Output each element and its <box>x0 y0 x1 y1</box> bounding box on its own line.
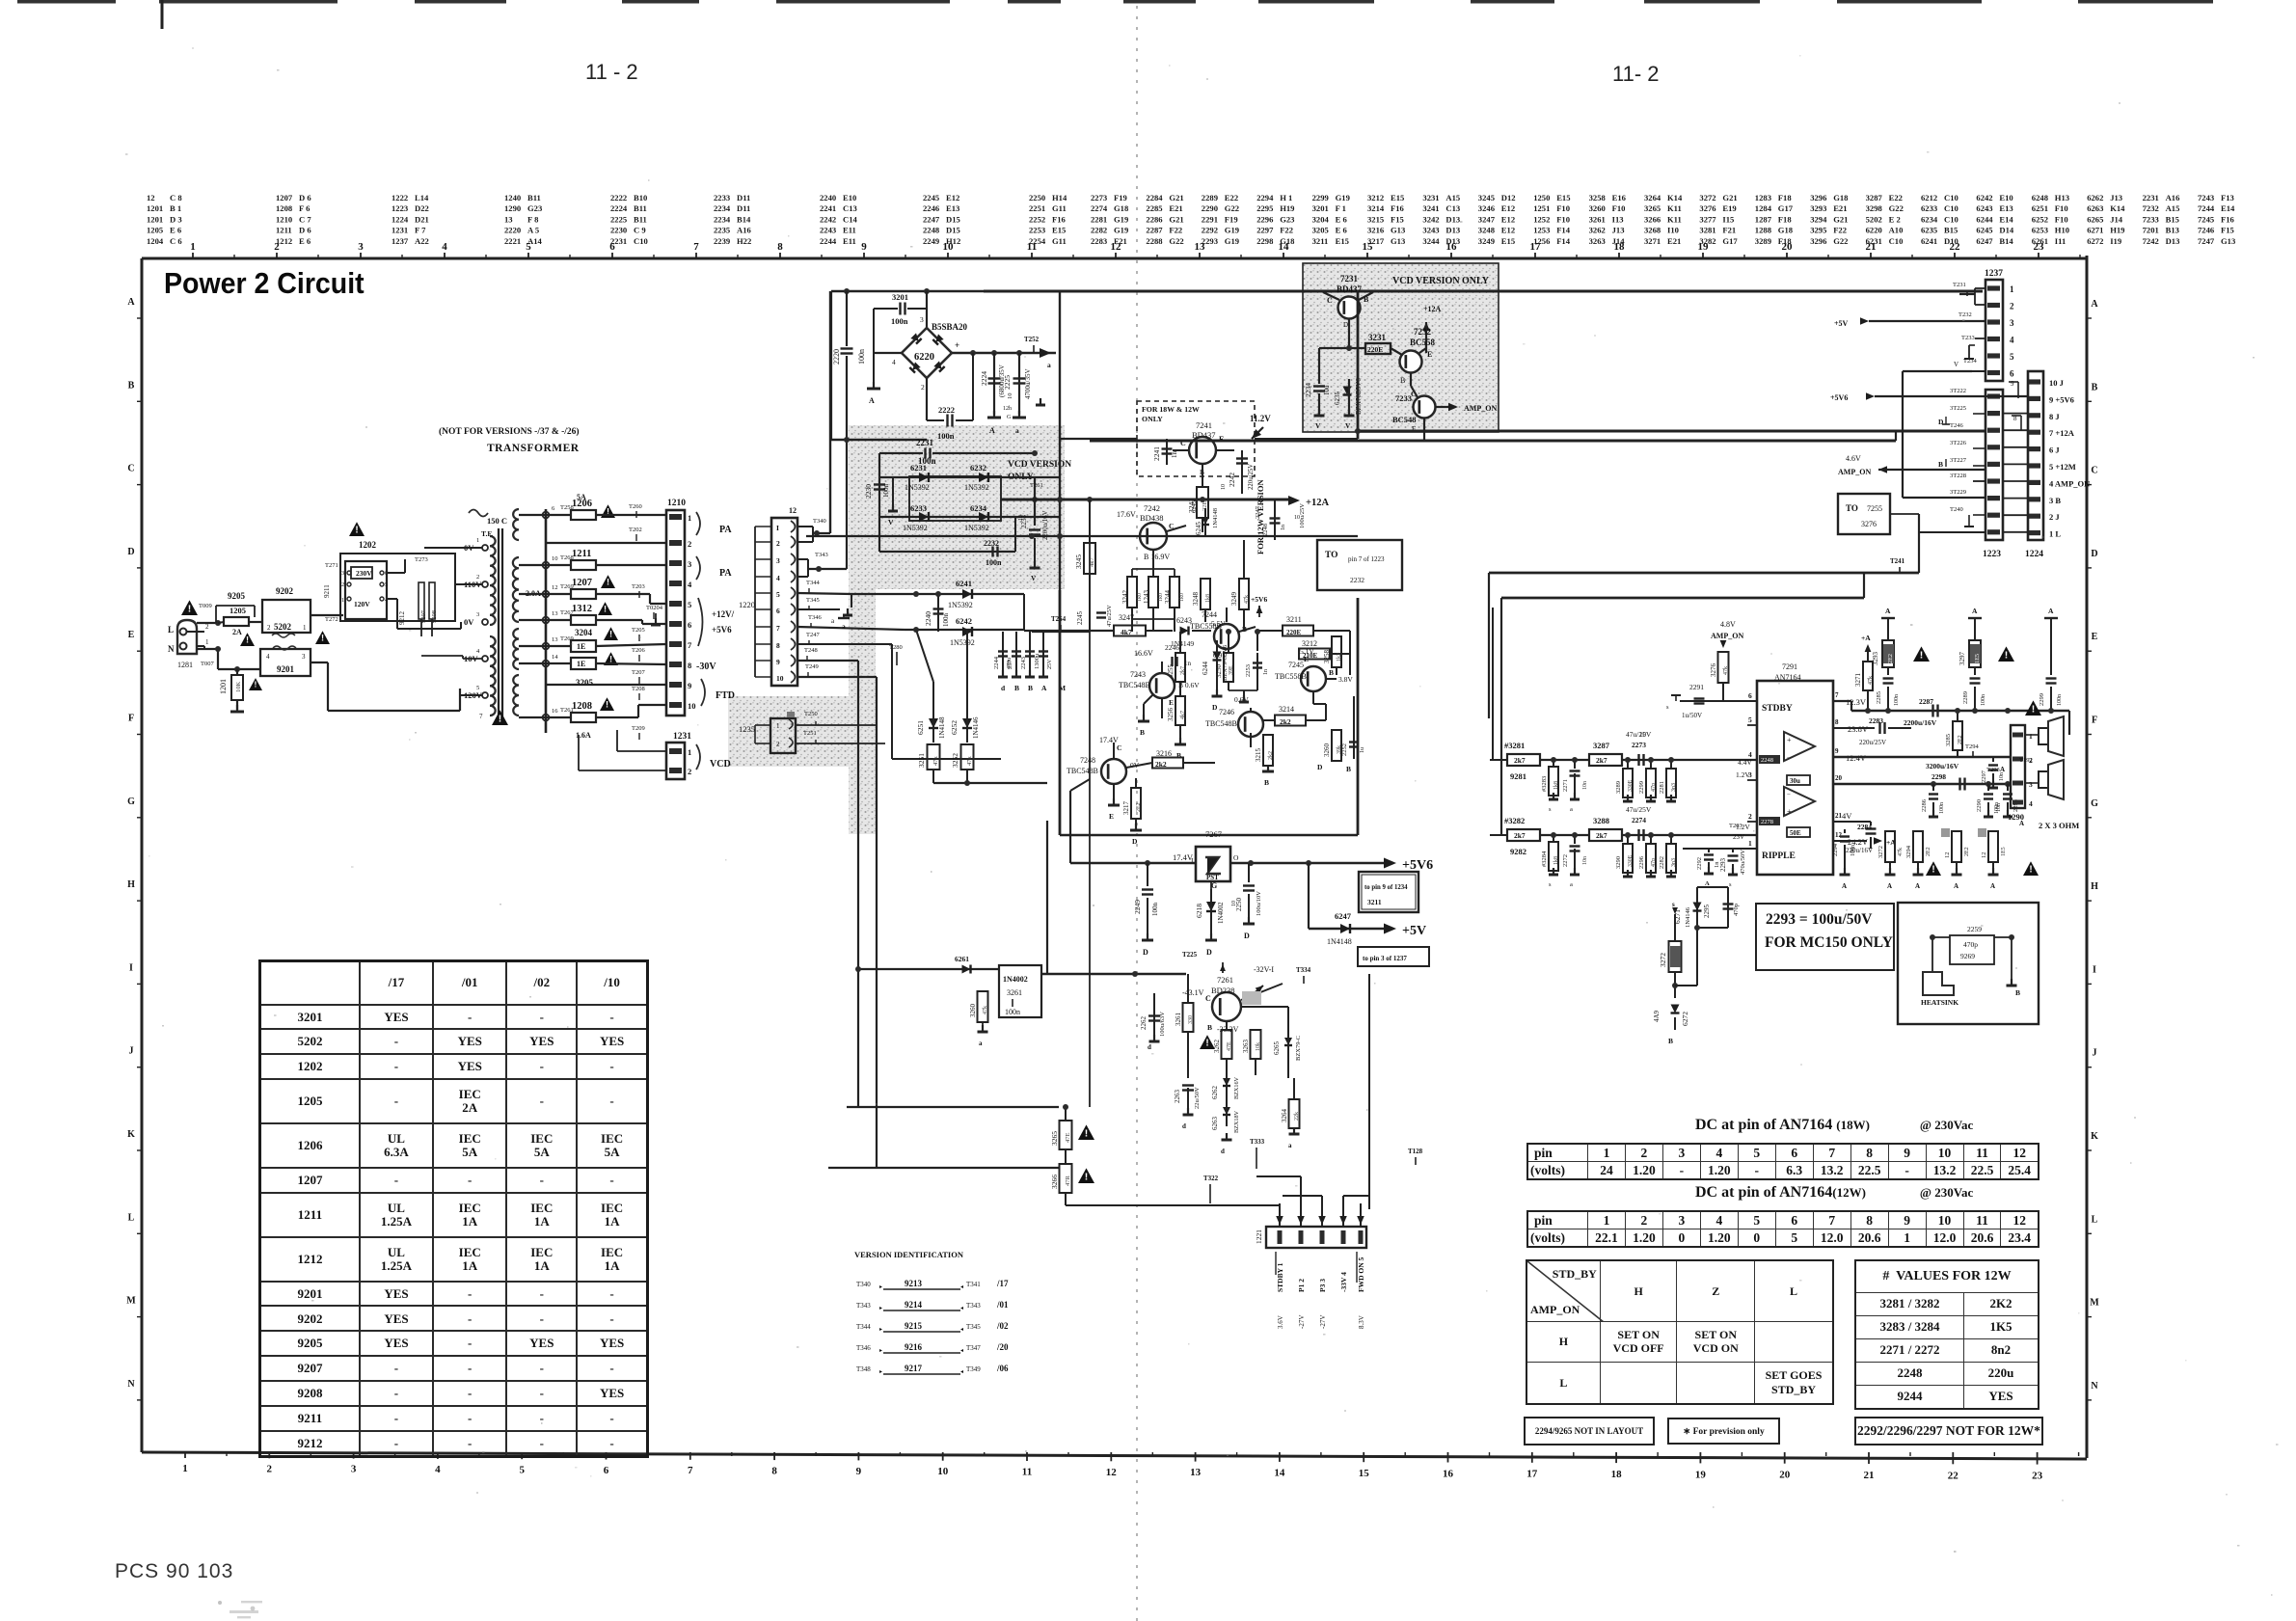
svg-text:2232: 2232 <box>1350 576 1364 584</box>
svg-text:E10: E10 <box>1999 193 2012 203</box>
svg-text:D: D <box>1317 763 1323 771</box>
svg-text:T252: T252 <box>1024 336 1040 343</box>
svg-text:T293: T293 <box>1986 767 2000 773</box>
svg-text:2k2: 2k2 <box>1155 760 1167 769</box>
svg-text:+5V: +5V <box>1834 319 1849 328</box>
svg-text:F10: F10 <box>1556 214 1570 224</box>
svg-text:B15: B15 <box>1944 226 1958 235</box>
svg-text:10: 10 <box>1639 731 1647 739</box>
svg-text:RIPPLE: RIPPLE <box>1762 851 1796 861</box>
svg-text:D: D <box>1343 321 1348 329</box>
svg-text:1201: 1201 <box>219 679 228 694</box>
svg-text:2230: 2230 <box>610 226 627 235</box>
svg-text:2297: 2297 <box>1256 226 1274 235</box>
svg-text:1: 1 <box>190 241 196 253</box>
svg-text:+: + <box>1787 807 1792 816</box>
svg-text:+A: +A <box>1861 634 1871 642</box>
svg-text:B: B <box>1668 1037 1673 1045</box>
svg-text:1: 1 <box>2010 284 2014 294</box>
svg-text:F 6: F 6 <box>299 203 311 213</box>
svg-text:d: d <box>1148 1043 1151 1051</box>
svg-text:100n: 100n <box>2057 694 2063 706</box>
svg-text:10: 10 <box>1007 393 1013 400</box>
svg-text:2: 2 <box>776 539 780 548</box>
svg-text:K: K <box>127 1129 135 1140</box>
svg-text:/06: /06 <box>996 1364 1009 1373</box>
svg-text:3242: 3242 <box>1121 590 1129 605</box>
svg-text:E12: E12 <box>946 193 959 203</box>
svg-text:E14: E14 <box>1999 214 2013 224</box>
svg-text:2: 2 <box>776 741 780 748</box>
svg-text:AMP_ON: AMP_ON <box>1464 404 1497 413</box>
svg-text:◂: ◂ <box>960 1284 963 1290</box>
svg-text:9: 9 <box>2011 380 2014 388</box>
svg-text:5 +12M: 5 +12M <box>2049 462 2076 472</box>
svg-text:330: 330 <box>1188 1015 1194 1024</box>
svg-text:2254: 2254 <box>1029 236 1046 246</box>
svg-text:17.4V: 17.4V <box>1099 736 1119 744</box>
svg-text:F13: F13 <box>2221 193 2234 203</box>
svg-text:C: C <box>1117 743 1121 752</box>
svg-text:H13: H13 <box>2055 193 2069 203</box>
svg-text:1223: 1223 <box>1983 550 2001 559</box>
svg-text:E 2: E 2 <box>1889 214 1901 224</box>
svg-text:220E: 220E <box>1367 345 1383 354</box>
svg-text:10n: 10n <box>1582 781 1588 790</box>
svg-text:2296: 2296 <box>1638 855 1645 869</box>
svg-text:H: H <box>127 879 135 890</box>
svg-text:B: B <box>1346 765 1351 773</box>
svg-text:10u: 10u <box>1323 385 1331 395</box>
svg-text:1: 1 <box>205 638 209 646</box>
svg-text:F21: F21 <box>1114 236 1127 246</box>
svg-text:B: B <box>1207 1023 1212 1032</box>
svg-text:K14: K14 <box>2110 203 2125 213</box>
svg-text:I: I <box>776 524 779 532</box>
svg-text:3272: 3272 <box>1699 193 1715 203</box>
svg-text:12: 12 <box>1981 852 1987 859</box>
svg-text:3211: 3211 <box>1312 236 1329 246</box>
svg-text:7291: 7291 <box>1782 662 1797 671</box>
svg-text:1204: 1204 <box>147 236 164 246</box>
svg-text:A: A <box>127 297 135 308</box>
svg-text:L: L <box>2092 1214 2098 1225</box>
svg-text:F 8: F 8 <box>527 214 539 224</box>
svg-text:L14: L14 <box>415 193 429 203</box>
svg-text:47E: 47E <box>1227 1041 1232 1051</box>
svg-text:3293: 3293 <box>1810 203 1826 213</box>
svg-text:12: 12 <box>1944 852 1951 859</box>
svg-text:T273: T273 <box>415 556 428 563</box>
svg-text:1231: 1231 <box>673 732 691 742</box>
svg-text:2222: 2222 <box>938 405 955 415</box>
svg-text:3215: 3215 <box>1367 214 1384 224</box>
svg-text:G: G <box>2091 798 2098 809</box>
svg-text:VCD VERSION: VCD VERSION <box>1008 460 1071 470</box>
svg-text:M: M <box>126 1296 136 1307</box>
svg-text:B11: B11 <box>527 193 541 203</box>
svg-text:3289: 3289 <box>1615 781 1622 794</box>
svg-text:E12: E12 <box>1501 226 1515 235</box>
svg-text:1: 1 <box>2029 732 2033 741</box>
svg-text:C 7: C 7 <box>299 214 311 224</box>
svg-text:14: 14 <box>1274 1468 1285 1479</box>
svg-text:A: A <box>1885 607 1891 615</box>
svg-text:B 0.6V: B 0.6V <box>1178 681 1200 689</box>
svg-text:!: ! <box>606 700 608 710</box>
svg-text:6271: 6271 <box>2087 226 2103 235</box>
svg-text:2200u/16V: 2200u/16V <box>1904 718 1937 727</box>
svg-text:C: C <box>2091 466 2097 476</box>
svg-text:3214: 3214 <box>1279 705 1294 714</box>
svg-text:A: A <box>1842 882 1847 890</box>
svg-text:E22: E22 <box>1225 193 1238 203</box>
svg-text:1E5: 1E5 <box>1974 654 1981 663</box>
svg-text:1287: 1287 <box>1755 214 1772 224</box>
svg-text:B: B <box>1176 751 1181 760</box>
svg-text:F22: F22 <box>1833 226 1847 235</box>
svg-text:3245: 3245 <box>1074 554 1083 569</box>
svg-text:7: 7 <box>776 624 780 633</box>
svg-text:N: N <box>127 1379 135 1390</box>
svg-text:s: s <box>1549 881 1552 888</box>
svg-text:F18: F18 <box>1778 236 1793 246</box>
svg-text:2247: 2247 <box>923 214 940 224</box>
svg-text:6: 6 <box>552 505 555 512</box>
svg-text:s: s <box>1729 881 1732 888</box>
svg-text:3n3: 3n3 <box>1671 858 1677 867</box>
svg-text:G17: G17 <box>1722 236 1738 246</box>
svg-text:6251: 6251 <box>2032 203 2048 213</box>
svg-text:E15: E15 <box>1501 236 1515 246</box>
svg-text:+: + <box>1787 736 1792 744</box>
svg-text:2: 2 <box>267 1463 273 1474</box>
svg-text:3231: 3231 <box>1422 193 1439 203</box>
svg-text:6231: 6231 <box>910 463 927 473</box>
svg-text:D: D <box>1132 837 1138 846</box>
svg-text:2: 2 <box>205 623 209 631</box>
svg-text:3296: 3296 <box>1810 236 1827 246</box>
svg-text:1N4146: 1N4146 <box>1685 906 1691 928</box>
svg-text:D15: D15 <box>946 214 960 224</box>
svg-text:0V: 0V <box>464 617 474 627</box>
svg-text:PST: PST <box>1206 874 1219 881</box>
svg-text:3T228: 3T228 <box>1950 473 1966 479</box>
svg-text:47k: 47k <box>1868 676 1874 685</box>
svg-text:7 +12A: 7 +12A <box>2049 428 2075 438</box>
svg-text:G13: G13 <box>1391 226 1405 235</box>
svg-text:7244: 7244 <box>2198 203 2215 213</box>
svg-text:to pin 9 of 1234: to pin 9 of 1234 <box>1364 884 1408 891</box>
svg-text:2245: 2245 <box>923 193 939 203</box>
svg-text:47k: 47k <box>1723 666 1729 675</box>
svg-text:3276: 3276 <box>1710 663 1717 678</box>
svg-text:B: B <box>1264 778 1269 787</box>
svg-text:3261: 3261 <box>1007 988 1022 997</box>
svg-text:5.1V: 5.1V <box>1300 647 1314 656</box>
svg-text:150 C: 150 C <box>487 516 507 526</box>
svg-text:1n: 1n <box>1171 451 1178 459</box>
svg-text:T280: T280 <box>889 644 903 651</box>
svg-text:E19: E19 <box>1722 203 1736 213</box>
svg-text:A: A <box>1041 684 1047 692</box>
svg-text:a: a <box>1015 426 1019 435</box>
svg-text:K14: K14 <box>1667 193 1683 203</box>
svg-text:470u/50V: 470u/50V <box>1740 850 1746 875</box>
svg-text:B10: B10 <box>634 193 647 203</box>
svg-text:T232: T232 <box>1958 311 1972 318</box>
svg-text:3265: 3265 <box>1644 203 1661 213</box>
svg-text:/01: /01 <box>996 1300 1009 1310</box>
svg-text:47p: 47p <box>1651 858 1657 867</box>
svg-text:17: 17 <box>1526 1469 1538 1480</box>
svg-text:3262: 3262 <box>1213 1040 1221 1054</box>
svg-text:D 6: D 6 <box>299 226 311 235</box>
svg-text:5: 5 <box>519 1464 525 1475</box>
svg-text:D22: D22 <box>415 203 429 213</box>
svg-text:10 J: 10 J <box>2049 378 2065 388</box>
svg-text:20: 20 <box>1835 774 1843 782</box>
svg-text:A: A <box>1887 882 1892 890</box>
svg-text:5: 5 <box>385 582 388 588</box>
svg-text:T260: T260 <box>629 503 642 510</box>
svg-text:3217: 3217 <box>1122 801 1130 816</box>
svg-text:D11: D11 <box>737 203 750 213</box>
svg-text:I10: I10 <box>1667 226 1679 235</box>
svg-text:6244: 6244 <box>1202 662 1209 676</box>
svg-text:6220: 6220 <box>1866 226 1882 235</box>
svg-text:F16: F16 <box>1391 203 1405 213</box>
svg-text:6263: 6263 <box>2087 203 2103 213</box>
svg-text:3264: 3264 <box>1281 1109 1288 1123</box>
svg-text:D11: D11 <box>737 193 750 203</box>
svg-text:P3 3: P3 3 <box>1318 1279 1327 1292</box>
svg-text:1202: 1202 <box>359 540 377 550</box>
svg-text:9: 9 <box>856 1466 862 1477</box>
svg-text:I: I <box>129 962 133 973</box>
svg-text:2246: 2246 <box>923 203 940 213</box>
svg-text:B: B <box>2015 988 2020 997</box>
svg-text:100n: 100n <box>1850 845 1856 856</box>
svg-text:D: D <box>1143 948 1148 957</box>
svg-text:2220: 2220 <box>504 226 521 235</box>
svg-text:T334: T334 <box>1296 966 1311 974</box>
svg-text:1: 1 <box>776 722 780 730</box>
svg-text:!: ! <box>1205 1039 1208 1049</box>
svg-text:C10: C10 <box>1944 203 1958 213</box>
svg-text:3294: 3294 <box>1905 845 1912 858</box>
svg-text:-27V: -27V <box>1319 1315 1327 1329</box>
svg-text:D15: D15 <box>946 226 960 235</box>
svg-text:6245: 6245 <box>1976 226 1992 235</box>
svg-text:13: 13 <box>552 636 558 643</box>
svg-text:2k2: 2k2 <box>1268 751 1274 760</box>
svg-text:9 +5V6: 9 +5V6 <box>2049 394 2074 404</box>
svg-text:6235: 6235 <box>1334 392 1341 406</box>
svg-text:C: C <box>1169 522 1174 530</box>
svg-text:D10: D10 <box>1944 236 1958 246</box>
svg-text:G11: G11 <box>1052 236 1067 246</box>
svg-text:7247: 7247 <box>2198 236 2215 246</box>
svg-text:G23: G23 <box>1280 214 1294 224</box>
svg-text:T.F.: T.F. <box>481 529 493 538</box>
svg-text:A10: A10 <box>1889 226 1904 235</box>
svg-text:6232: 6232 <box>970 463 986 473</box>
svg-text:2248: 2248 <box>923 226 940 235</box>
svg-text:T240: T240 <box>1950 506 1963 513</box>
svg-text:2287: 2287 <box>1919 697 1933 706</box>
svg-text:100n: 100n <box>891 316 908 326</box>
svg-text:6233: 6233 <box>910 503 927 513</box>
svg-text:▸: ▸ <box>879 1306 882 1311</box>
svg-text:1205: 1205 <box>147 226 163 235</box>
svg-text:F22: F22 <box>1169 226 1182 235</box>
svg-text:2292: 2292 <box>1696 857 1703 870</box>
svg-text:3205: 3205 <box>576 678 594 688</box>
svg-text:8: 8 <box>771 1465 777 1476</box>
svg-text:F18: F18 <box>1778 193 1793 203</box>
svg-text:3244: 3244 <box>1164 590 1172 605</box>
svg-text:E21: E21 <box>1833 203 1847 213</box>
svg-text:3231: 3231 <box>1368 333 1387 342</box>
svg-text:4: 4 <box>2010 336 2014 345</box>
svg-text:6212: 6212 <box>1921 193 1937 203</box>
svg-text:T261: T261 <box>1030 482 1043 489</box>
svg-text:47u/25V: 47u/25V <box>1106 605 1113 627</box>
svg-text:1208: 1208 <box>572 701 592 712</box>
svg-text:A: A <box>1915 882 1920 890</box>
svg-text:3256: 3256 <box>1167 708 1175 722</box>
svg-text:2243: 2243 <box>820 226 836 235</box>
svg-text:T272: T272 <box>325 616 338 623</box>
svg-text:7242: 7242 <box>1144 503 1160 513</box>
svg-text:F19: F19 <box>1114 193 1127 203</box>
svg-text:D: D <box>127 547 134 557</box>
svg-text:3216: 3216 <box>1367 226 1385 235</box>
svg-text:6261: 6261 <box>2032 236 2048 246</box>
svg-text:J: J <box>129 1046 134 1057</box>
svg-text:6234: 6234 <box>1921 214 1938 224</box>
svg-text:T346: T346 <box>808 614 822 621</box>
svg-text:4k7: 4k7 <box>1121 628 1132 636</box>
svg-text:P1 2: P1 2 <box>1297 1279 1306 1292</box>
svg-text:1250: 1250 <box>1533 193 1550 203</box>
svg-text:G21: G21 <box>1722 193 1737 203</box>
svg-text:4k7: 4k7 <box>1180 711 1186 719</box>
svg-text:1207: 1207 <box>572 578 592 588</box>
svg-text:BC558: BC558 <box>1410 338 1436 347</box>
svg-text:T343: T343 <box>966 1302 981 1310</box>
svg-text:E15: E15 <box>1391 193 1404 203</box>
svg-text:3242: 3242 <box>1422 214 1439 224</box>
svg-text:7: 7 <box>479 713 483 720</box>
svg-text:B: B <box>2092 382 2098 392</box>
svg-text:2291: 2291 <box>1202 214 1218 224</box>
svg-text:F 1: F 1 <box>1336 203 1346 213</box>
svg-text:1N4002: 1N4002 <box>1217 902 1225 924</box>
svg-text:100n: 100n <box>857 349 866 365</box>
svg-text:VCD: VCD <box>710 759 731 770</box>
svg-text:B: B <box>1329 668 1334 677</box>
svg-text:I15: I15 <box>1722 214 1734 224</box>
svg-text:3: 3 <box>688 559 691 569</box>
svg-text:2247: 2247 <box>1255 505 1261 519</box>
svg-text:F18: F18 <box>1778 214 1793 224</box>
svg-text:100n: 100n <box>1894 694 1900 706</box>
svg-text:/20: /20 <box>996 1342 1009 1352</box>
svg-text:E15: E15 <box>1336 236 1349 246</box>
svg-text:C10: C10 <box>1944 214 1958 224</box>
svg-text:BZX79-C: BZX79-C <box>1295 1036 1302 1061</box>
svg-text:▸: ▸ <box>879 1284 882 1290</box>
svg-text:C 8: C 8 <box>170 193 182 203</box>
svg-text:10: 10 <box>1221 484 1227 490</box>
svg-text:3: 3 <box>476 611 479 618</box>
svg-text:4 AMP_ON: 4 AMP_ON <box>2049 478 2091 488</box>
svg-text:7232: 7232 <box>2143 203 2159 213</box>
svg-text:2299: 2299 <box>2039 693 2045 706</box>
svg-text:A: A <box>1990 882 1995 890</box>
svg-text:16.6V: 16.6V <box>1134 649 1153 658</box>
svg-text:1231: 1231 <box>392 226 408 235</box>
svg-text:G13: G13 <box>2221 236 2235 246</box>
svg-text:12: 12 <box>1106 1467 1118 1478</box>
svg-text:B14: B14 <box>737 214 751 224</box>
svg-text:G18: G18 <box>1778 226 1794 235</box>
svg-text:100n: 100n <box>1151 903 1159 917</box>
svg-text:6245: 6245 <box>1191 500 1198 513</box>
svg-text:C13: C13 <box>1445 203 1460 213</box>
svg-text:+5V: +5V <box>1402 924 1426 938</box>
svg-text:FOR 18W & 12W: FOR 18W & 12W <box>1142 405 1200 414</box>
svg-text:B11: B11 <box>634 214 647 224</box>
svg-text:3271: 3271 <box>1854 673 1862 688</box>
svg-text:3262: 3262 <box>1589 226 1606 235</box>
svg-text:1206: 1206 <box>572 499 592 509</box>
svg-text:J13: J13 <box>2110 193 2122 203</box>
svg-text:C10: C10 <box>1889 236 1904 246</box>
svg-text:470p: 470p <box>1963 940 1978 949</box>
svg-text:7: 7 <box>1835 691 1839 699</box>
svg-text:7267: 7267 <box>1205 829 1222 839</box>
svg-text:4: 4 <box>2029 799 2033 808</box>
svg-text:B: B <box>128 380 135 391</box>
svg-text:E12: E12 <box>1501 214 1515 224</box>
svg-text:T347: T347 <box>966 1344 981 1352</box>
svg-text:2221: 2221 <box>504 236 521 246</box>
svg-text:330E: 330E <box>1628 779 1634 792</box>
svg-text:1205: 1205 <box>230 606 246 615</box>
svg-text:2230: 2230 <box>864 484 873 499</box>
svg-text:4.8V: 4.8V <box>1720 620 1736 629</box>
svg-text:◂: ◂ <box>960 1306 963 1311</box>
svg-text:2294: 2294 <box>1832 843 1839 856</box>
svg-text:1: 1 <box>341 598 344 604</box>
svg-text:A16: A16 <box>737 226 752 235</box>
svg-text:A: A <box>1705 880 1710 887</box>
svg-text:T322: T322 <box>1203 1175 1219 1182</box>
svg-text:16: 16 <box>1443 1468 1454 1479</box>
svg-text:T250: T250 <box>804 711 818 717</box>
svg-text:H12: H12 <box>946 236 960 246</box>
svg-text:1237: 1237 <box>1985 269 2003 279</box>
svg-text:1288: 1288 <box>1755 226 1772 235</box>
svg-text:BD238: BD238 <box>1211 986 1235 995</box>
svg-text:2252: 2252 <box>1341 743 1348 756</box>
svg-text:3: 3 <box>776 556 780 565</box>
svg-text:H10: H10 <box>2055 226 2069 235</box>
svg-text:0.9V: 0.9V <box>1213 651 1228 660</box>
